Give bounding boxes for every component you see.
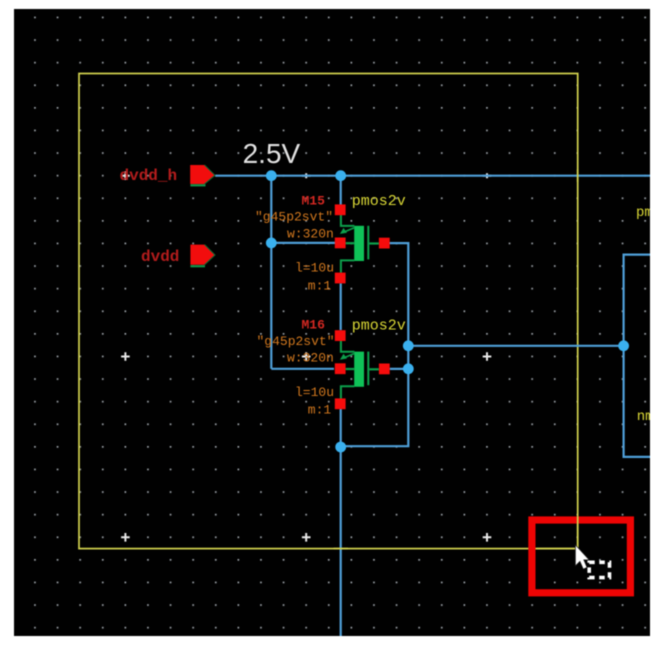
- wire: gate vertical from rail: [270, 176, 272, 369]
- M15 channel bar: [354, 226, 364, 261]
- transistor M16: [335, 330, 390, 409]
- M15 gate line: [367, 226, 369, 260]
- svg-text:dvdd: dvdd: [141, 248, 179, 266]
- M15 bulk lead: [369, 242, 379, 244]
- svg-text:l=10u: l=10u: [295, 385, 334, 400]
- M15 drain terminal: [335, 273, 346, 284]
- pin dvdd_h: [190, 165, 215, 185]
- wire: M16 drain down to edge: [340, 409, 342, 637]
- M16 bulk terminal: [379, 364, 390, 375]
- wire: right partial bracket: [624, 255, 650, 457]
- junction at rail/M15 source: [335, 170, 346, 181]
- M16 channel bar: [354, 352, 364, 387]
- wire: bulk rail: [341, 243, 408, 446]
- M16 drain lead: [341, 386, 355, 398]
- svg-text:m:1: m:1: [308, 278, 332, 293]
- M16 gate line: [367, 352, 369, 386]
- svg-text:2.5V: 2.5V: [243, 138, 301, 169]
- wire: top supply rail: [216, 175, 651, 177]
- svg-text:l=10u: l=10u: [295, 261, 334, 276]
- wire: output to right: [408, 345, 623, 347]
- wire: M15 source to rail: [340, 176, 342, 205]
- boundary over wire crossings: [334, 170, 578, 549]
- M15 bulk terminal: [379, 238, 390, 249]
- pin dvdd: [190, 245, 215, 267]
- junction at M16 drain tee: [335, 442, 346, 453]
- mouse cursor: [575, 545, 589, 569]
- M16 source arrow: [343, 354, 355, 359]
- svg-text:"g45p2svt": "g45p2svt": [255, 210, 333, 225]
- wire: M15 gate branch: [271, 242, 335, 244]
- M15 drain lead: [341, 260, 355, 272]
- svg-text:"g45p2svt": "g45p2svt": [257, 334, 335, 349]
- M16 gate terminal: [335, 363, 346, 374]
- svg-text:w:320n: w:320n: [287, 226, 334, 241]
- M16 source terminal: [335, 330, 346, 341]
- M15 source arrow: [343, 228, 355, 233]
- major grid plus markers: [121, 171, 491, 541]
- schematic boundary rectangle: [79, 74, 578, 549]
- M15 source terminal: [335, 204, 346, 215]
- M15 gate terminal: [335, 238, 346, 249]
- svg-text:w:320n: w:320n: [287, 351, 334, 366]
- svg-text:m:1: m:1: [308, 403, 332, 418]
- wire: M15 drain to M16 source: [340, 284, 342, 331]
- svg-text:pmos2v: pmos2v: [352, 193, 406, 210]
- M16 bulk lead: [369, 368, 379, 370]
- junction at output tee: [403, 340, 414, 351]
- svg-text:dvdd_h: dvdd_h: [120, 167, 178, 185]
- M15 source lead: [341, 215, 355, 226]
- svg-text:pmos2v: pmos2v: [352, 317, 406, 334]
- M16 gate lead: [346, 368, 355, 370]
- M16 drain terminal: [335, 398, 346, 409]
- svg-text:M16: M16: [302, 318, 326, 333]
- wire: M16 bulk to rail: [390, 368, 409, 370]
- boundary corner over selection box: [536, 516, 579, 548]
- junction at M16 bulk tee: [403, 363, 414, 374]
- M16 source lead: [341, 341, 355, 352]
- selection highlight box: [532, 520, 631, 593]
- wire: M16 gate branch: [271, 368, 334, 370]
- drag marquee icon: [589, 562, 609, 577]
- transistor M15: [335, 204, 390, 283]
- M15 gate lead: [346, 242, 355, 244]
- junction at rail/gate column: [266, 170, 277, 181]
- svg-text:M15: M15: [302, 193, 326, 208]
- junction at M15 gate branch: [266, 238, 277, 249]
- junction at right bracket: [618, 340, 629, 351]
